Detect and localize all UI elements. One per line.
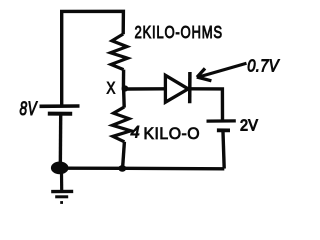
battery B1 8V short plate <box>48 112 72 116</box>
wire node X to diode anode <box>125 87 165 91</box>
annotation arrowhead <box>197 68 212 80</box>
resistor R1 2kΩ zigzag <box>111 34 128 70</box>
wire R2 bottom to bottom wire <box>123 142 125 168</box>
label 2V <box>240 117 259 135</box>
wire battery B2 to bottom wire <box>223 132 224 169</box>
svg-text:2V: 2V <box>240 117 259 135</box>
label X <box>107 79 116 98</box>
resistor R2 4kΩ zigzag <box>112 107 131 142</box>
diode D1 triangle <box>165 75 188 102</box>
ground <box>51 191 73 202</box>
junction dot bottom-left <box>51 162 69 175</box>
wire left loop: battery top up, across top, down to R1 <box>62 11 124 104</box>
svg-text:X: X <box>107 79 116 98</box>
label 2KILO-OHMS <box>135 23 223 42</box>
label 4 KILO-O <box>131 124 201 143</box>
label 0.7V <box>247 56 280 75</box>
wire battery B1 to bottom junction <box>59 116 63 171</box>
svg-text:8V: 8V <box>20 98 38 120</box>
svg-text:2KILO-OHMS: 2KILO-OHMS <box>135 23 223 42</box>
battery B1 8V long plate <box>40 104 80 108</box>
wire diode cathode to battery B2 <box>191 89 223 120</box>
svg-text:4: 4 <box>131 124 140 142</box>
node X dot <box>122 85 129 91</box>
wire node X down to R2 <box>122 89 126 108</box>
diode D1 cathode bar <box>188 72 192 103</box>
wire bottom horizontal <box>64 166 224 170</box>
svg-text:KILO-O: KILO-O <box>144 125 201 143</box>
label 8V <box>20 98 38 120</box>
wire R1 bottom to node X <box>122 70 126 91</box>
battery B2 2V long plate <box>207 119 236 122</box>
wire ground stub <box>60 172 63 190</box>
svg-text:0.7V: 0.7V <box>247 56 280 75</box>
battery B2 2V short plate <box>217 128 230 132</box>
junction dot at R2 bottom <box>118 165 126 172</box>
annotation arrow line 0.7V <box>200 63 247 77</box>
